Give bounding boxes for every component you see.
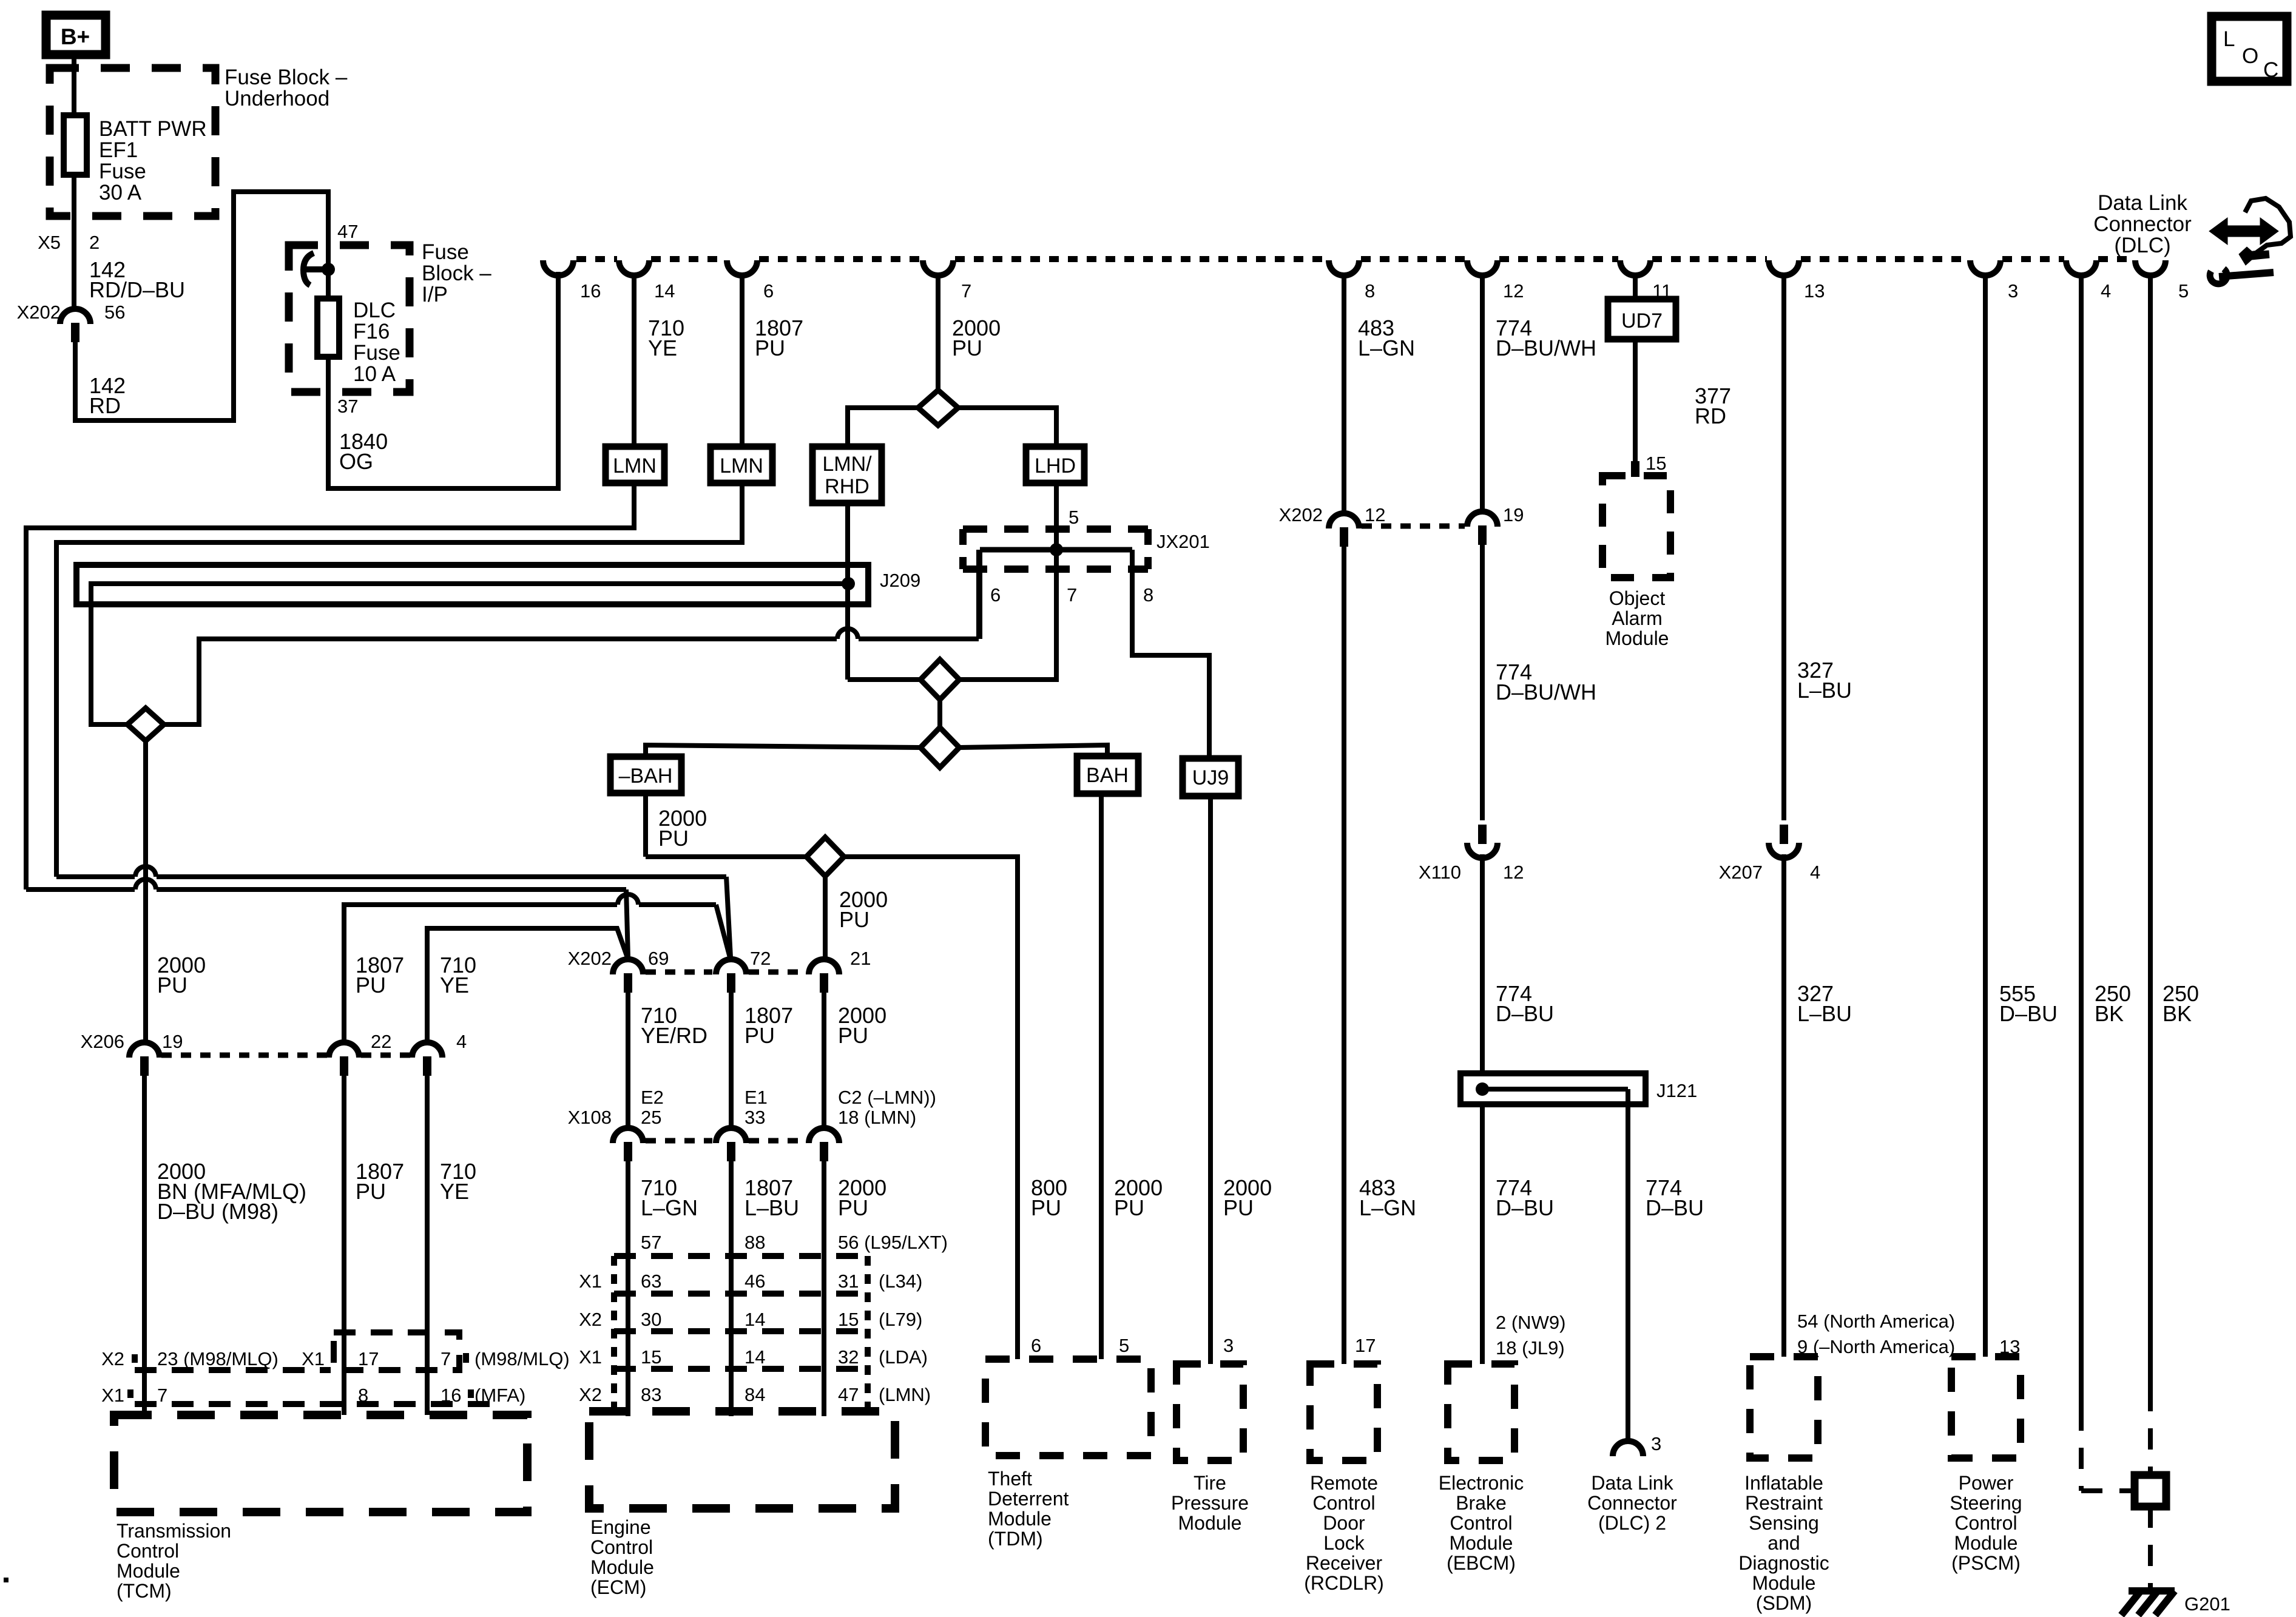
svg-text:Engine: Engine — [590, 1516, 651, 1538]
svg-text:Module: Module — [1752, 1572, 1816, 1594]
wire LMN pin14 branch to left — [26, 483, 634, 890]
wires X202 row down to X108 — [626, 991, 630, 1127]
connector DLC2 pin 3 — [1613, 1441, 1643, 1456]
svg-text:D–BU: D–BU — [1999, 1001, 2058, 1026]
svg-text:Fuse: Fuse — [99, 160, 146, 183]
fuse DLC F16 10A — [317, 299, 339, 357]
DLC pin 14 connector — [619, 260, 649, 275]
svg-text:E1: E1 — [745, 1087, 768, 1108]
svg-text:(DLC) 2: (DLC) 2 — [1598, 1512, 1666, 1534]
wire fuse EF1 to X202 — [72, 175, 76, 308]
svg-text:Deterrent: Deterrent — [988, 1488, 1069, 1510]
wire BAH down to TDM pin5 2000 PU — [1099, 794, 1104, 1359]
svg-text:Remote: Remote — [1310, 1472, 1378, 1494]
DLC bus dashed line — [576, 256, 617, 262]
svg-text:12: 12 — [1503, 862, 1524, 883]
DLC pin 13 connector — [1769, 260, 1799, 275]
svg-text:D–BU/WH: D–BU/WH — [1496, 680, 1596, 704]
wire JX201 pin6 down — [977, 550, 982, 639]
svg-text:Data Link: Data Link — [2098, 191, 2187, 215]
wire UJ9 down to tire pressure module — [1208, 796, 1213, 1364]
svg-text:D–BU/WH: D–BU/WH — [1496, 336, 1596, 360]
svg-text:Pressure: Pressure — [1171, 1492, 1249, 1514]
svg-text:4: 4 — [456, 1031, 467, 1052]
svg-text:(LDA): (LDA) — [879, 1346, 928, 1368]
wire X202-56 to fuse block I/P pin 47 — [75, 192, 328, 420]
svg-text:PU: PU — [839, 907, 869, 932]
page mark dot — [4, 1578, 8, 1582]
svg-text:31: 31 — [838, 1271, 859, 1292]
svg-text:L–BU: L–BU — [1797, 1001, 1852, 1026]
splice diamond 2000 PU left — [127, 708, 164, 741]
wire UD7 option pin 11 — [1633, 274, 1638, 299]
DLC connector icon plug outline — [2242, 198, 2291, 255]
svg-text:DLC: DLC — [353, 299, 396, 322]
wire X206-4 riser to pin69 — [427, 928, 627, 1042]
svg-text:17: 17 — [358, 1348, 379, 1369]
svg-text:Control: Control — [1312, 1492, 1375, 1514]
svg-text:Control: Control — [1450, 1512, 1512, 1534]
svg-text:72: 72 — [750, 948, 771, 969]
svg-text:4: 4 — [2101, 280, 2111, 302]
svg-text:Transmission: Transmission — [116, 1520, 231, 1542]
svg-text:Control: Control — [1954, 1512, 2017, 1534]
option box LMN/RHD — [812, 447, 882, 503]
svg-text:X207: X207 — [1719, 862, 1763, 883]
svg-text:PU: PU — [1031, 1195, 1061, 1220]
svg-text:(M98/MLQ): (M98/MLQ) — [474, 1348, 570, 1369]
svg-text:G201: G201 — [2184, 1593, 2230, 1615]
module box TCM — [114, 1415, 527, 1512]
svg-text:PU: PU — [1114, 1195, 1144, 1220]
svg-text:Fuse Block –: Fuse Block – — [225, 66, 348, 89]
wire DLC7 2000 PU — [936, 274, 940, 390]
svg-text:7: 7 — [961, 280, 971, 302]
splice pack J209 box — [76, 565, 868, 604]
svg-text:Block –: Block – — [422, 262, 491, 285]
DLC connector icon wrench — [2210, 269, 2227, 284]
svg-text:17: 17 — [1355, 1335, 1376, 1356]
svg-text:84: 84 — [745, 1384, 765, 1405]
svg-text:Receiver: Receiver — [1306, 1552, 1383, 1574]
option box -BAH — [610, 757, 681, 793]
svg-text:30: 30 — [641, 1309, 661, 1330]
svg-text:PU: PU — [755, 336, 785, 360]
svg-text:I/P: I/P — [422, 283, 448, 306]
svg-text:37: 37 — [337, 396, 358, 417]
wire diamond to LMN/RHD — [848, 408, 918, 447]
wire diamond up-over to JX201 pin6 — [164, 639, 837, 724]
svg-text:15: 15 — [1646, 453, 1666, 474]
svg-text:(ECM): (ECM) — [590, 1576, 646, 1598]
wire JX201 pin7 down to diamond — [959, 550, 1056, 680]
svg-text:PU: PU — [952, 336, 982, 360]
breaker hook symbol — [303, 253, 314, 285]
svg-text:(TCM): (TCM) — [116, 1580, 172, 1602]
svg-text:Lock: Lock — [1323, 1532, 1365, 1554]
wire X207 to SDM 327 L-BU — [1781, 854, 1786, 1357]
DLC pin 12 connector — [1467, 260, 1497, 275]
svg-text:F16: F16 — [353, 320, 390, 343]
svg-text:57: 57 — [641, 1232, 661, 1253]
svg-text:BK: BK — [2095, 1001, 2124, 1026]
wire B+ to fuse EF1 — [72, 57, 76, 115]
wire DLC6 1807 PU — [740, 274, 745, 447]
svg-text:5: 5 — [1069, 507, 1079, 528]
svg-text:18 (LMN): 18 (LMN) — [838, 1107, 916, 1128]
svg-text:Theft: Theft — [988, 1468, 1032, 1490]
splice diamond pin7 — [918, 390, 958, 425]
svg-text:Alarm: Alarm — [1612, 607, 1663, 629]
svg-text:63: 63 — [641, 1271, 661, 1292]
svg-text:(PSCM): (PSCM) — [1951, 1552, 2021, 1574]
DLC pin 5 connector — [2135, 260, 2166, 275]
svg-text:32: 32 — [838, 1346, 859, 1368]
splice diamond 2000 PU mid upper — [920, 660, 959, 700]
svg-text:15: 15 — [838, 1309, 859, 1330]
DLC pin 8 connector — [1329, 260, 1359, 275]
svg-text:12: 12 — [1365, 504, 1385, 525]
DLC pin 3 connector — [1970, 260, 2001, 275]
svg-text:Module: Module — [116, 1560, 180, 1582]
svg-text:56: 56 — [104, 302, 125, 323]
wire diamond5 down to X202 21 — [823, 876, 828, 957]
svg-text:21: 21 — [850, 948, 871, 969]
wire DLC12 774 D-BU/WH — [1480, 274, 1485, 513]
svg-text:8: 8 — [1365, 280, 1375, 302]
wire diamond5 to TDM pin6 800 PU — [844, 857, 1018, 1359]
svg-text:X202: X202 — [568, 948, 612, 969]
module box SDM — [1750, 1357, 1818, 1458]
DLC pin 6 connector — [727, 260, 757, 275]
wire DLC4 250 BK — [2079, 274, 2084, 1409]
module box tire pressure — [1177, 1364, 1243, 1460]
ground splice square — [2135, 1475, 2166, 1507]
wires X108 down to ECM — [626, 1160, 630, 1416]
svg-text:Module: Module — [988, 1508, 1052, 1530]
wire UD7 to object alarm module 377 RD — [1633, 339, 1638, 462]
svg-text:X202: X202 — [1279, 504, 1323, 525]
svg-text:Module: Module — [1178, 1512, 1242, 1534]
wire 1807 branch to pin72 — [56, 874, 135, 879]
svg-text:L–GN: L–GN — [1358, 336, 1415, 360]
svg-text:L–GN: L–GN — [1359, 1195, 1416, 1220]
svg-text:PU: PU — [356, 1179, 386, 1204]
svg-text:7: 7 — [1067, 584, 1077, 606]
svg-text:RD: RD — [89, 393, 121, 418]
svg-text:88: 88 — [745, 1232, 765, 1253]
svg-text:6: 6 — [990, 584, 1001, 606]
svg-text:3: 3 — [1651, 1433, 1661, 1454]
svg-text:Fuse: Fuse — [353, 341, 400, 365]
svg-text:Restraint: Restraint — [1745, 1492, 1823, 1514]
svg-text:C: C — [2263, 58, 2278, 82]
svg-text:X1: X1 — [302, 1348, 325, 1369]
svg-text:PU: PU — [157, 973, 187, 998]
wire splice to ground dashed — [2148, 1507, 2153, 1591]
svg-text:3: 3 — [1223, 1335, 1234, 1356]
svg-text:83: 83 — [641, 1384, 661, 1405]
option box LMN (pin6) — [711, 447, 772, 483]
svg-text:X110: X110 — [1419, 862, 1461, 883]
svg-text:L–BU: L–BU — [745, 1195, 799, 1220]
wire LMN/RHD through J209 — [845, 503, 850, 680]
svg-text:Underhood: Underhood — [225, 87, 329, 110]
wire X202-12 down to RCDLR 483 L-GN — [1342, 545, 1346, 1364]
wire J209 to diamond TCM branch — [91, 584, 848, 724]
svg-text:Data Link: Data Link — [1591, 1472, 1673, 1494]
svg-text:X2: X2 — [579, 1384, 602, 1405]
junction dot F16 tap — [322, 263, 335, 276]
wire DLC5 250 BK — [2148, 274, 2153, 1390]
svg-text:X2: X2 — [579, 1309, 602, 1330]
svg-text:19: 19 — [1503, 504, 1524, 525]
svg-text:Module: Module — [1450, 1532, 1513, 1554]
wire J121 to EBCM 774 D-BU — [1480, 1104, 1485, 1364]
svg-text:BAH: BAH — [1086, 764, 1129, 787]
svg-text:X1: X1 — [101, 1385, 124, 1406]
svg-text:8: 8 — [1143, 584, 1153, 606]
svg-text:8: 8 — [358, 1385, 368, 1406]
module box EBCM — [1448, 1364, 1514, 1460]
svg-text:(LMN): (LMN) — [879, 1384, 931, 1405]
junction dot JX201 — [1050, 543, 1063, 556]
svg-text:YE: YE — [648, 336, 677, 360]
wire X110 to J121 774 D-BU — [1480, 854, 1485, 1073]
svg-text:14: 14 — [745, 1346, 765, 1368]
svg-text:LHD: LHD — [1035, 454, 1076, 478]
svg-text:33: 33 — [745, 1107, 765, 1128]
fuse block underhood dashed box — [50, 68, 215, 216]
option box UJ9 — [1183, 758, 1238, 796]
svg-text:7: 7 — [157, 1385, 167, 1406]
svg-text:6: 6 — [1031, 1335, 1041, 1356]
svg-text:L–GN: L–GN — [641, 1195, 698, 1220]
svg-text:56 (L95/LXT): 56 (L95/LXT) — [838, 1232, 948, 1253]
svg-text:BK: BK — [2163, 1001, 2192, 1026]
power symbol B+ — [46, 15, 106, 55]
svg-text:UD7: UD7 — [1621, 309, 1663, 333]
svg-text:3: 3 — [2008, 280, 2018, 302]
svg-text:YE/RD: YE/RD — [641, 1023, 707, 1048]
svg-text:LMN/: LMN/ — [822, 453, 872, 476]
svg-text:(DLC): (DLC) — [2114, 234, 2170, 257]
svg-text:B+: B+ — [61, 24, 90, 49]
wire between diamonds — [937, 700, 942, 727]
svg-text:22: 22 — [371, 1031, 391, 1052]
svg-text:UJ9: UJ9 — [1192, 766, 1229, 789]
svg-text:14: 14 — [745, 1309, 765, 1330]
svg-text:(SDM): (SDM) — [1756, 1592, 1812, 1614]
svg-text:Module: Module — [590, 1556, 654, 1578]
connector row TCM X2/X1 upper — [135, 1367, 331, 1373]
wire 250 BK dashed to splice square — [2079, 1409, 2084, 1491]
svg-text:X108: X108 — [568, 1107, 612, 1128]
svg-text:Sensing: Sensing — [1749, 1512, 1819, 1534]
svg-text:X1: X1 — [579, 1271, 602, 1292]
svg-text:Power: Power — [1959, 1472, 2014, 1494]
DLC pin 11 connector — [1620, 260, 1650, 275]
svg-text:6: 6 — [763, 280, 774, 302]
svg-text:30 A: 30 A — [99, 181, 142, 204]
DLC pin 7 connector — [923, 260, 953, 275]
svg-text:PU: PU — [356, 973, 386, 998]
DLC pin 16 connector — [543, 260, 573, 275]
wire LHD to JX201 pin5 — [1054, 483, 1059, 550]
wire J121 branch bar — [1482, 1087, 1628, 1092]
option box BAH — [1077, 756, 1138, 794]
svg-text:D–BU: D–BU — [1496, 1001, 1554, 1026]
svg-text:(TDM): (TDM) — [988, 1528, 1043, 1550]
svg-text:12: 12 — [1503, 280, 1524, 302]
svg-text:PU: PU — [745, 1023, 775, 1048]
svg-text:46: 46 — [745, 1271, 765, 1292]
svg-text:25: 25 — [641, 1107, 661, 1128]
option box UD7 — [1608, 299, 1676, 339]
wire JX201 pin8 to UJ9 — [1132, 550, 1209, 758]
svg-text:Object: Object — [1609, 587, 1666, 609]
svg-text:OG: OG — [339, 449, 373, 474]
svg-text:X5: X5 — [38, 232, 61, 253]
svg-text:PU: PU — [658, 826, 689, 851]
svg-text:(L34): (L34) — [879, 1271, 922, 1292]
svg-text:47: 47 — [838, 1384, 859, 1405]
svg-text:Door: Door — [1323, 1512, 1365, 1534]
svg-text:Module: Module — [1606, 627, 1669, 649]
svg-text:Brake: Brake — [1456, 1492, 1507, 1514]
wire LMN pin6 branch to left — [56, 483, 742, 877]
svg-text:(EBCM): (EBCM) — [1447, 1552, 1516, 1574]
connector rows ECM — [614, 1253, 868, 1259]
junction dot J121 — [1476, 1082, 1489, 1096]
svg-text:2: 2 — [89, 232, 100, 253]
svg-text:47: 47 — [337, 221, 358, 242]
svg-text:Control: Control — [116, 1540, 179, 1562]
wire J121 branch to DLC2 774 D-BU — [1626, 1089, 1630, 1443]
svg-text:69: 69 — [648, 948, 669, 969]
wire DLC3 555 D-BU — [1983, 274, 1988, 1357]
svg-text:RD: RD — [1695, 403, 1726, 428]
wire -BAH to diamond5 — [646, 854, 807, 859]
splice diamond 2000 PU lower — [806, 837, 844, 876]
svg-text:Control: Control — [590, 1536, 653, 1558]
svg-text:RHD: RHD — [825, 475, 869, 498]
svg-text:14: 14 — [654, 280, 675, 302]
svg-text:Module: Module — [1954, 1532, 2018, 1554]
svg-text:9 (–North America): 9 (–North America) — [1797, 1336, 1955, 1357]
svg-text:Connector: Connector — [2093, 212, 2192, 236]
option box LMN (pin14) — [606, 447, 664, 483]
svg-text:Diagnostic: Diagnostic — [1738, 1552, 1829, 1574]
splice pack J121 box — [1460, 1073, 1646, 1104]
option box LHD — [1026, 447, 1084, 483]
svg-text:4: 4 — [1810, 862, 1820, 883]
svg-text:2 (NW9): 2 (NW9) — [1496, 1312, 1565, 1333]
DLC connector icon lead — [2239, 247, 2269, 265]
svg-text:X206: X206 — [81, 1031, 124, 1052]
module box TDM — [985, 1359, 1151, 1456]
svg-text:LMN: LMN — [720, 454, 763, 478]
svg-text:Steering: Steering — [1950, 1492, 2022, 1514]
wire DLC8 483 L-GN — [1342, 274, 1346, 515]
svg-text:X1: X1 — [579, 1346, 602, 1368]
svg-text:(RCDLR): (RCDLR) — [1304, 1572, 1384, 1594]
svg-text:JX201: JX201 — [1156, 531, 1210, 552]
svg-text:54 (North America): 54 (North America) — [1797, 1311, 1955, 1332]
svg-text:D–BU (M98): D–BU (M98) — [157, 1199, 279, 1224]
module box ECM — [589, 1411, 895, 1508]
svg-text:5: 5 — [2178, 280, 2189, 302]
wire 710 branch to pin69 — [26, 887, 135, 892]
svg-text:Tire: Tire — [1194, 1472, 1226, 1494]
module box RCDLR — [1310, 1364, 1377, 1460]
ground symbol G201 — [2129, 1587, 2175, 1595]
svg-text:Inflatable: Inflatable — [1744, 1472, 1823, 1494]
svg-text:–BAH: –BAH — [619, 765, 673, 788]
wire diamond to LHD — [958, 408, 1056, 447]
wire DLC13 327 L-BU upper — [1781, 274, 1786, 820]
DLC pin 4 connector — [2066, 260, 2096, 275]
fuse block I/P dashed box — [289, 245, 410, 392]
fuse EF1 BATT PWR 30A — [64, 115, 87, 175]
svg-text:10 A: 10 A — [353, 362, 396, 386]
wire -BAH to BAH long branch — [646, 745, 920, 757]
wires X206 down to TCM — [142, 1074, 147, 1415]
svg-text:5: 5 — [1119, 1335, 1129, 1356]
wire 774 D-BU/WH mid — [1480, 544, 1485, 820]
svg-text:15: 15 — [641, 1346, 661, 1368]
svg-text:LMN: LMN — [613, 454, 657, 478]
svg-text:19: 19 — [162, 1031, 183, 1052]
connector row TCM X1 lower — [135, 1401, 504, 1407]
svg-text:PU: PU — [838, 1195, 868, 1220]
junction dot J209 — [842, 577, 855, 590]
wire diamond down to X206 19 — [143, 741, 148, 1043]
wire JX201 internal bar — [980, 547, 1132, 553]
svg-text:Connector: Connector — [1587, 1492, 1677, 1514]
module box PSCM — [1951, 1357, 2021, 1458]
LOC legend box — [2212, 16, 2287, 81]
svg-text:O: O — [2242, 44, 2258, 68]
svg-text:PU: PU — [1223, 1195, 1254, 1220]
svg-text:(L79): (L79) — [879, 1309, 922, 1330]
wire X206-22 riser to pin72 — [344, 905, 617, 1043]
svg-text:PU: PU — [838, 1023, 868, 1048]
wire 250 BK dashed into splice square — [2148, 1390, 2153, 1474]
svg-text:7: 7 — [441, 1348, 451, 1369]
svg-text:18 (JL9): 18 (JL9) — [1496, 1337, 1565, 1359]
svg-text:L: L — [2223, 27, 2235, 51]
svg-text:BATT PWR: BATT PWR — [99, 117, 207, 141]
svg-text:RD/D–BU: RD/D–BU — [89, 277, 185, 302]
svg-text:X2: X2 — [101, 1348, 124, 1369]
svg-text:Fuse: Fuse — [422, 240, 469, 264]
svg-text:J121: J121 — [1656, 1080, 1697, 1101]
wire DLC14 710 YE — [632, 274, 636, 447]
svg-text:23 (M98/MLQ): 23 (M98/MLQ) — [157, 1348, 279, 1369]
svg-text:C2 (–LMN)): C2 (–LMN)) — [838, 1087, 936, 1108]
svg-text:D–BU: D–BU — [1496, 1195, 1554, 1220]
svg-text:EF1: EF1 — [99, 138, 138, 162]
wire F16 to DLC pin 16 — [328, 272, 558, 488]
svg-text:D–BU: D–BU — [1646, 1195, 1704, 1220]
svg-text:16: 16 — [441, 1385, 461, 1406]
svg-text:Electronic: Electronic — [1439, 1472, 1524, 1494]
svg-text:YE: YE — [440, 1179, 469, 1204]
svg-text:16: 16 — [580, 280, 601, 302]
svg-text:L–BU: L–BU — [1797, 678, 1852, 703]
object alarm module dashed box — [1602, 476, 1670, 578]
